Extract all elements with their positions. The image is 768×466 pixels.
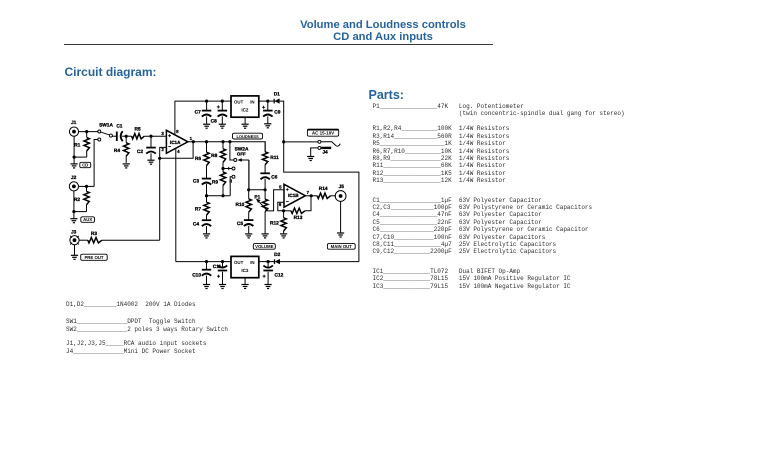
ground under C7 xyxy=(203,124,210,128)
svg-text:1: 1 xyxy=(190,136,193,141)
potentiometer P1 body xyxy=(262,190,267,234)
svg-text:MAIN OUT: MAIN OUT xyxy=(331,244,353,249)
wire: IC1A output rail (pin1) to R11 corner xyxy=(188,142,265,152)
svg-text:IC3: IC3 xyxy=(241,268,249,273)
capacitor C1 (series input cap, horizontal) xyxy=(117,131,123,141)
wire: R14 to J5 xyxy=(331,195,336,197)
wire: V+ rail IC2 IN to D1 xyxy=(259,100,274,102)
wire: J3 to R3 xyxy=(79,239,88,241)
RCA socket J3 xyxy=(70,236,79,245)
wire: tap I to SW2A position I contact xyxy=(223,168,232,170)
resistor R1 xyxy=(84,132,89,158)
svg-text:3: 3 xyxy=(161,131,164,136)
svg-text:C11: C11 xyxy=(213,264,222,270)
node: SW2A common / R10 junction xyxy=(247,188,250,191)
svg-text:IN: IN xyxy=(250,99,254,104)
wire: pot-top row xyxy=(249,189,265,191)
wire: feedback loop under IC1A to output xyxy=(160,142,193,159)
svg-text:R6: R6 xyxy=(195,156,201,162)
wire: R3 to pre-out riser xyxy=(102,239,160,241)
ground under J2 xyxy=(70,219,77,223)
svg-text:IN: IN xyxy=(250,260,254,265)
capacitor C12 xyxy=(263,266,273,278)
ground under P1 xyxy=(262,234,269,238)
svg-text:C6: C6 xyxy=(271,174,277,180)
RCA socket J5 xyxy=(335,191,346,202)
svg-text:AC 15-18V: AC 15-18V xyxy=(312,130,334,135)
wire: C2 leads xyxy=(150,136,152,147)
ground under IC2 xyxy=(242,124,249,128)
resistor R4 xyxy=(124,136,129,163)
wire: node A row xyxy=(207,195,231,197)
label box VOLUME xyxy=(253,244,275,250)
svg-text:R4: R4 xyxy=(114,148,120,154)
regulator IC2 box xyxy=(231,96,259,117)
SW2A OFF contact xyxy=(234,159,237,162)
node: C8 on V+ rail xyxy=(221,100,224,103)
capacitor C3 xyxy=(202,179,211,185)
SW1A common contact xyxy=(109,134,112,137)
wire: C7 leads xyxy=(206,101,208,110)
node: C1/R4/R5 junction xyxy=(125,135,128,138)
label box AUX xyxy=(81,217,95,223)
ground under J4 xyxy=(307,157,314,161)
resistor R6 xyxy=(204,142,209,179)
svg-text:OUT: OUT xyxy=(234,260,244,265)
svg-text:J2: J2 xyxy=(71,175,77,181)
node: J2/R2 junction xyxy=(85,185,88,188)
svg-text:4: 4 xyxy=(177,149,180,154)
svg-text:CD: CD xyxy=(82,163,88,168)
wire: R5 to IC1A pin3 xyxy=(144,135,166,137)
node: pin6/R12/R13 junction xyxy=(282,209,285,212)
svg-text:R5: R5 xyxy=(135,126,141,132)
svg-text:R11: R11 xyxy=(270,155,279,161)
label box LOUDNESS xyxy=(233,133,263,139)
node: C11 on V- rail xyxy=(221,260,224,263)
wire: D2 to right corner of loop xyxy=(280,261,359,263)
wire: R1 bottom to J1 ground leg xyxy=(74,156,87,158)
ground under J3 xyxy=(71,255,78,259)
ground under J5 xyxy=(337,233,344,237)
wire: C3 bottom to node A xyxy=(206,184,208,196)
wire: D1 to DC input corner xyxy=(280,101,284,142)
svg-text:D1: D1 xyxy=(274,92,280,98)
wire: C12 leads xyxy=(267,262,269,267)
wire: IC2 ground pin xyxy=(244,117,246,123)
SW1A bottom contact (AUX) xyxy=(98,138,101,141)
svg-text:7: 7 xyxy=(307,190,310,195)
label box AC 15-18V xyxy=(307,129,338,136)
regulator IC3 box xyxy=(231,256,259,277)
svg-text:R13: R13 xyxy=(294,215,303,221)
wire: IC3 ground pin xyxy=(244,278,246,284)
wire: C10 leads xyxy=(206,262,208,270)
capacitor C2 xyxy=(146,148,156,154)
wire: SW2A common riser down to R10/pot row xyxy=(248,160,250,190)
wire: C11 leads xyxy=(222,262,224,267)
capacitor C8 xyxy=(217,105,227,116)
node: loudness tap I (R8/R9) xyxy=(221,167,224,170)
label box CD xyxy=(80,162,91,167)
svg-text:D2: D2 xyxy=(274,252,280,258)
svg-text:C2: C2 xyxy=(137,149,143,155)
wire: J2 hot row to AUX riser xyxy=(79,185,95,187)
IC1A plus sign xyxy=(168,134,171,137)
resistor R7 xyxy=(204,196,209,220)
svg-text:C4: C4 xyxy=(193,221,199,227)
wire: IC1A pin4 riser down to V- rail xyxy=(175,149,177,262)
wire: IC1B pin6 U-route to feedback node xyxy=(278,202,284,211)
svg-text:LOUDNESS: LOUDNESS xyxy=(236,134,259,139)
IC1B plus sign xyxy=(286,188,289,191)
wire: C9 leads xyxy=(267,101,269,110)
J4 tip contact xyxy=(318,140,321,143)
node: C10 on V- rail xyxy=(205,260,208,263)
J4 tip spring hook xyxy=(321,142,340,146)
svg-text:P1: P1 xyxy=(254,194,260,200)
SW2A position II contact xyxy=(232,175,235,178)
svg-text:R10: R10 xyxy=(235,202,244,208)
ground under C8 xyxy=(219,124,226,128)
wire: C6 bottom to pot top xyxy=(264,179,266,190)
wire: V+ top rail from pin8 to IC2 OUT xyxy=(175,100,231,102)
label box PRE OUT xyxy=(81,254,108,260)
capacitor C6 xyxy=(260,173,270,179)
resistor R8 xyxy=(220,142,225,169)
svg-text:VOLUME: VOLUME xyxy=(255,244,274,249)
svg-text:I: I xyxy=(228,166,229,171)
ground under C2 xyxy=(147,160,154,164)
RCA socket J2 xyxy=(69,182,78,191)
wire: DC node loop down and right to bottom rail xyxy=(284,142,359,262)
svg-text:OFF: OFF xyxy=(237,151,246,156)
ground under C5 xyxy=(245,234,252,238)
SW2A position I contact xyxy=(232,167,235,170)
resistor R2 xyxy=(84,186,89,211)
svg-text:R14: R14 xyxy=(319,186,328,192)
capacitor C9 xyxy=(262,106,273,117)
ground under C10 xyxy=(203,285,210,289)
ground under R12 xyxy=(280,234,287,238)
wire: C5 bottom lead xyxy=(248,226,250,234)
svg-text:AUX: AUX xyxy=(83,217,92,222)
wire: C1 to R5 node xyxy=(122,135,132,137)
node: C12/D2 junction xyxy=(267,260,270,263)
node A right xyxy=(221,194,224,197)
svg-text:J1: J1 xyxy=(71,120,77,126)
wire: C4 bottom lead xyxy=(206,226,208,233)
resistor R9 xyxy=(220,169,225,196)
resistor R5 xyxy=(132,134,145,139)
svg-text:R8: R8 xyxy=(211,153,217,159)
wire: V- bottom rail from pin4 corner to IC3 OUT xyxy=(176,261,231,263)
resistor R11 xyxy=(262,142,267,173)
svg-text:C9: C9 xyxy=(274,110,280,116)
node: J2 ground junction xyxy=(72,210,75,213)
svg-text:R9: R9 xyxy=(212,179,218,185)
node: J1/R1 junction xyxy=(85,130,88,133)
switch SW1A lever xyxy=(101,132,110,135)
svg-text:C3: C3 xyxy=(193,178,199,184)
capacitor C7 xyxy=(202,111,212,117)
ground under R4 xyxy=(123,164,130,168)
resistor R10 xyxy=(246,190,251,220)
wire: C8 leads xyxy=(221,101,223,110)
node: IC1B output junction xyxy=(310,194,313,197)
svg-text:8: 8 xyxy=(176,129,179,134)
SW1A top contact (CD) xyxy=(98,130,101,133)
node: pin1/feedback junction xyxy=(192,140,195,143)
op-amp IC1A triangle xyxy=(166,130,188,153)
resistor R3 xyxy=(88,238,102,243)
RCA socket J1 xyxy=(69,127,78,136)
wire: J5 shield down to ground xyxy=(340,201,342,232)
svg-text:IC1B: IC1B xyxy=(288,193,299,198)
svg-text:J5: J5 xyxy=(339,184,345,190)
wire: riser down to PRE OUT row xyxy=(159,158,161,240)
svg-text:SW1A: SW1A xyxy=(99,122,113,128)
svg-text:R3: R3 xyxy=(91,231,97,237)
svg-text:J4: J4 xyxy=(322,150,328,156)
node: R8 top on rail xyxy=(221,140,224,143)
node: pot top / C6 junction xyxy=(264,188,267,191)
capacitor C11 xyxy=(217,266,227,278)
wire: J3 shield to ground xyxy=(74,245,76,255)
J4 sleeve bar xyxy=(321,147,331,149)
resistor R14 xyxy=(317,193,330,198)
svg-text:IC1A: IC1A xyxy=(170,140,181,145)
switch SW2A lever arrow xyxy=(237,158,249,162)
capacitor C5 xyxy=(244,220,254,226)
svg-text:IC2: IC2 xyxy=(241,108,249,113)
svg-text:PRE OUT: PRE OUT xyxy=(84,255,103,260)
IC1A minus sign xyxy=(168,145,171,147)
diode D1 xyxy=(274,99,279,104)
svg-text:5: 5 xyxy=(279,184,282,189)
potentiometer P1 wiper arrow xyxy=(256,199,268,211)
node: DC input junction xyxy=(282,140,285,143)
wire: DC node to J4 tip contact xyxy=(284,141,318,143)
svg-text:C5: C5 xyxy=(237,221,243,227)
node: R6 top on rail xyxy=(205,140,208,143)
node: C9/D1 junction xyxy=(266,100,269,103)
wire: P1 wiper to IC1B pin5 xyxy=(268,190,285,211)
label box MAIN OUT xyxy=(327,244,355,250)
svg-text:C7: C7 xyxy=(195,110,201,116)
wire: SW2A position II contact to node A row xyxy=(230,177,232,196)
wire: AUX riser from SW1A bottom contact down to J2 row xyxy=(94,140,98,187)
svg-text:OUT: OUT xyxy=(234,99,244,104)
resistor R13 xyxy=(291,208,305,213)
resistor R12 xyxy=(281,211,286,234)
wire: SW2A OFF contact riser to rail xyxy=(230,142,234,160)
svg-text:C10: C10 xyxy=(192,273,201,279)
svg-text:J3: J3 xyxy=(71,230,77,236)
svg-text:R2: R2 xyxy=(74,197,80,203)
svg-text:R7: R7 xyxy=(195,207,201,213)
op-amp IC1B triangle xyxy=(284,184,305,207)
wire: J2 shield down xyxy=(73,191,75,218)
node: R5/C2 junction xyxy=(149,135,152,138)
capacitor C10 xyxy=(202,270,211,276)
svg-text:C1: C1 xyxy=(116,124,122,130)
svg-text:II: II xyxy=(229,179,231,184)
ground under C4 xyxy=(203,234,210,238)
J4 sleeve contact xyxy=(318,146,321,149)
wire: J4 sleeve to ground xyxy=(311,148,318,156)
ground under C11 xyxy=(219,285,226,289)
wire: IC1A pin2 to feedback node xyxy=(160,147,167,158)
svg-text:R12: R12 xyxy=(270,220,279,226)
svg-text:C12: C12 xyxy=(275,273,284,279)
svg-text:C8: C8 xyxy=(211,118,217,124)
svg-text:R1: R1 xyxy=(74,142,80,148)
wire: J1 shield down xyxy=(73,136,75,163)
wire: SW1A common to C1 xyxy=(112,135,116,137)
IC1B minus sign xyxy=(286,200,289,202)
diode D2 xyxy=(275,259,280,264)
ground under IC3 xyxy=(242,285,249,289)
wire: IC1B output to R14 xyxy=(305,195,317,197)
wire: V- rail IC3 IN to D2 xyxy=(259,261,275,263)
node: OFF riser on rail xyxy=(228,140,231,143)
node: feedback / pre-out junction xyxy=(158,157,161,160)
node A left (loudness tap II row) xyxy=(205,194,208,197)
capacitor C4 xyxy=(202,220,211,226)
node: C7 on V+ rail xyxy=(205,100,208,103)
wire: IC1A pin8 riser to V+ rail xyxy=(174,101,176,135)
wire: R2 bottom to J2 ground leg xyxy=(74,211,87,213)
svg-text:2: 2 xyxy=(161,147,164,152)
ground under C12 xyxy=(265,285,272,289)
wire: R13 leads and riser to output node xyxy=(284,210,291,212)
wire: J1 hot to SW1A top contact xyxy=(79,131,98,133)
ground under J1 xyxy=(71,164,78,168)
ground under C9 xyxy=(264,124,271,128)
node: J1 ground junction xyxy=(73,156,76,159)
